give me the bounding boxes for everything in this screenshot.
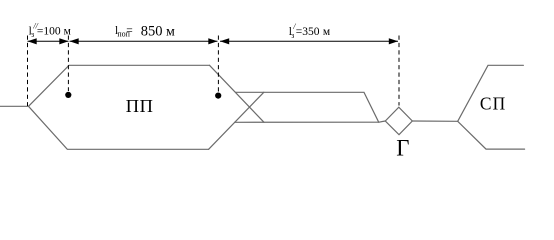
svg-text:з: з (31, 30, 34, 39)
svg-text:з: з (291, 31, 294, 40)
svg-text:ПП: ПП (126, 96, 154, 116)
svg-text:Г: Г (396, 136, 409, 161)
svg-text:м: м (323, 26, 331, 38)
svg-text:м: м (64, 26, 72, 38)
svg-text:=: = (126, 25, 133, 37)
svg-text:850: 850 (141, 23, 163, 39)
svg-text:=350: =350 (296, 26, 320, 38)
svg-text:м: м (166, 24, 175, 39)
svg-text:=100: =100 (37, 25, 61, 37)
svg-text:СП: СП (480, 94, 506, 114)
